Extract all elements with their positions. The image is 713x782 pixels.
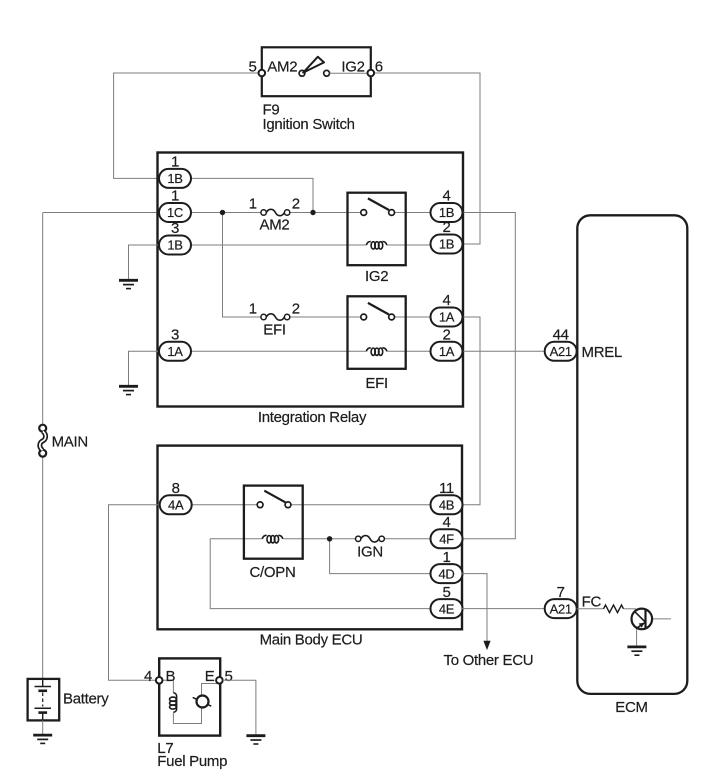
svg-text:ECM: ECM: [615, 699, 647, 716]
arrowhead to other ECU: [483, 641, 490, 650]
svg-text:1A: 1A: [439, 310, 455, 325]
svg-text:AM2: AM2: [267, 58, 297, 75]
svg-text:IGN: IGN: [357, 544, 383, 561]
svg-text:3: 3: [171, 327, 179, 344]
svg-text:Main Body ECU: Main Body ECU: [260, 632, 363, 649]
svg-text:A21: A21: [550, 601, 572, 616]
connector pin 1B(4): [431, 188, 463, 222]
wire battery vertical lower (MAIN link to battery): [42, 456, 44, 678]
svg-text:EFI: EFI: [263, 322, 285, 339]
svg-text:4E: 4E: [439, 601, 455, 616]
ignition switch blade lever: [303, 57, 324, 73]
ignition switch F9 box: [262, 47, 371, 96]
wire from ignition pin 5 to integration relay pin 1B(1): [114, 73, 259, 178]
svg-text:Integration Relay: Integration Relay: [258, 409, 367, 426]
svg-text:1B: 1B: [167, 171, 182, 186]
fuel pump coil: [170, 693, 177, 713]
wire 1A(2) to ECM A21 MREL: [462, 350, 545, 352]
svg-text:1: 1: [171, 154, 179, 171]
fuse IGN: [356, 536, 385, 542]
wire junction IGN down to 4D: [330, 539, 431, 574]
svg-text:4: 4: [144, 668, 152, 685]
wire battery feed to 1C: [43, 212, 160, 214]
svg-text:1: 1: [171, 188, 179, 205]
connector pin A21 (FC): [545, 584, 577, 618]
main body ECU box: [158, 446, 463, 630]
relay EFI box: [348, 296, 406, 369]
wire battery vertical upper (to MAIN link): [42, 213, 44, 426]
wire fuse AM2 to relay IG2 contact: [290, 212, 361, 214]
svg-text:5: 5: [442, 584, 450, 601]
relay IG2 contact: [361, 198, 395, 215]
svg-text:3: 3: [171, 220, 179, 237]
fuel pump internal wire pin B to coil: [162, 680, 173, 692]
svg-text:1A: 1A: [167, 344, 183, 359]
wire battery to ground: [42, 720, 44, 734]
connector pin 1C(1): [159, 188, 191, 222]
svg-text:MAIN: MAIN: [52, 434, 88, 451]
svg-text:1B: 1B: [439, 237, 454, 252]
svg-text:4D: 4D: [438, 566, 454, 581]
svg-text:AM2: AM2: [260, 217, 290, 234]
wire ignition contact IG2 to pin 6: [330, 72, 368, 74]
fuse AM2: [261, 209, 290, 215]
wire transistor emitter down to ground: [636, 629, 638, 646]
battery: [28, 679, 60, 721]
connector pin 1A(3): [159, 327, 191, 361]
svg-text:5: 5: [248, 58, 256, 75]
svg-text:5: 5: [225, 668, 233, 685]
relay IG2 coil: [366, 242, 386, 250]
svg-text:2: 2: [292, 196, 300, 213]
svg-text:4: 4: [442, 188, 450, 205]
junction node after fuse AM2: [310, 210, 315, 215]
fuel pump box L7: [159, 658, 220, 735]
wire transistor collector right: [646, 618, 653, 620]
ground below 1A(3): [119, 386, 138, 394]
svg-text:6: 6: [375, 58, 383, 75]
svg-text:IG2: IG2: [341, 58, 364, 75]
wire 1A(3) to ground: [129, 351, 161, 385]
fusible link MAIN: [39, 425, 46, 457]
ground below transistor: [627, 647, 646, 655]
connector pin 4F: [431, 514, 463, 548]
svg-text:4: 4: [442, 514, 450, 531]
connector pin 1A(2): [431, 327, 463, 361]
svg-text:1: 1: [442, 549, 450, 566]
wire 4D to other ECU with arrow: [462, 574, 487, 642]
svg-text:4: 4: [442, 292, 450, 309]
svg-text:Battery: Battery: [63, 691, 109, 708]
fuel pump internal wire motor top to pin E: [202, 684, 220, 696]
wire 4A out left down to fuel pump pin B: [109, 505, 160, 681]
wire 1B(3) to ground: [129, 245, 161, 280]
ground below fuel pump E: [246, 736, 265, 744]
wire 1A(3) coil row through EFI coil to 1A(2): [191, 350, 431, 352]
svg-text:A21: A21: [550, 344, 572, 359]
connector pin 1A(4): [431, 292, 463, 326]
connector pin 4E: [431, 584, 463, 618]
ignition switch pin 6: [368, 70, 375, 77]
svg-text:2: 2: [292, 300, 300, 317]
svg-text:2: 2: [442, 219, 450, 236]
relay C/OPN box: [244, 486, 303, 559]
ignition switch contact AM2 circle: [299, 70, 305, 76]
wire fuse EFI to relay EFI contact: [290, 316, 361, 318]
svg-text:4F: 4F: [439, 532, 454, 547]
svg-text:FC: FC: [582, 594, 602, 611]
fuel pump internal wire coil to motor bottom: [173, 708, 201, 724]
svg-text:Fuel Pump: Fuel Pump: [157, 753, 227, 770]
transistor Q (ECM output): [632, 609, 653, 630]
wire 1B(4) out right down to 4F: [462, 213, 515, 539]
svg-text:B: B: [166, 668, 176, 685]
relay EFI coil: [366, 348, 386, 356]
svg-text:MREL: MREL: [582, 344, 622, 361]
ground below battery: [33, 735, 52, 743]
wire FC to resistor: [577, 608, 604, 610]
svg-text:44: 44: [553, 327, 569, 344]
svg-text:1B: 1B: [167, 238, 182, 253]
svg-text:C/OPN: C/OPN: [249, 564, 295, 581]
svg-text:EFI: EFI: [365, 375, 387, 392]
wire junction 1C down to fuse EFI: [223, 213, 262, 318]
wire relay EFI contact to 1A(4): [395, 316, 431, 318]
svg-text:2: 2: [442, 327, 450, 344]
ignition switch contact IG2 circle: [324, 70, 330, 76]
wire pump pin E to ground: [223, 680, 256, 734]
ignition switch pin 5: [259, 70, 266, 77]
wire 4E to ECM A21 FC: [462, 608, 545, 610]
ECM box: [577, 215, 687, 694]
wire 1C to fuse AM2: [191, 212, 261, 214]
wire 1B(3) coil row through IG2 coil to 1B(2): [191, 244, 431, 246]
resistor (FC line): [604, 605, 624, 613]
junction node at IGN fuse left: [327, 536, 332, 541]
motor M (fuel pump): [197, 696, 209, 708]
wire 4A to C/OPN contact: [192, 504, 258, 506]
svg-text:8: 8: [172, 480, 180, 497]
relay C/OPN contact: [257, 491, 291, 508]
svg-text:1B: 1B: [439, 205, 454, 220]
connector pin 4B: [431, 480, 463, 514]
svg-text:1C: 1C: [167, 205, 183, 220]
connector pin 1B(2): [431, 219, 463, 253]
wire C/OPN coil row to IGN fuse and 4F: [210, 538, 430, 540]
svg-text:1A: 1A: [439, 344, 455, 359]
wire C/OPN contact to 4B: [291, 504, 431, 506]
relay C/OPN coil: [262, 535, 282, 543]
wire from ignition pin 6 to integration relay pin 1B(2): [374, 73, 480, 244]
connector pin 1B(3): [159, 220, 191, 254]
svg-text:1: 1: [249, 196, 257, 213]
svg-text:To Other ECU: To Other ECU: [444, 652, 534, 669]
svg-text:IG2: IG2: [365, 268, 388, 285]
wire 1A(4) out right down to 4B: [462, 317, 480, 505]
junction node at 1C row left: [220, 210, 225, 215]
ground below 1B(3): [119, 280, 138, 288]
svg-text:11: 11: [439, 480, 454, 497]
fuel pump pin E: [216, 677, 223, 684]
wire C/OPN coil left leg down to 4E: [210, 539, 430, 609]
svg-text:Ignition Switch: Ignition Switch: [263, 116, 355, 133]
svg-text:4A: 4A: [168, 498, 184, 513]
fuse EFI: [261, 314, 290, 320]
connector pin 4A: [160, 480, 192, 514]
connector pin 4D: [431, 549, 463, 583]
connector pin 1B(1): [159, 154, 191, 188]
svg-text:E: E: [205, 668, 215, 685]
wire resistor to transistor: [624, 608, 637, 610]
svg-text:7: 7: [557, 584, 565, 601]
svg-text:1: 1: [249, 300, 257, 317]
integration relay box: [158, 153, 464, 407]
motor M diagonal: [193, 697, 212, 706]
svg-text:4B: 4B: [439, 498, 454, 513]
wire 1B(1) to junction above AM2 dot: [191, 178, 313, 212]
relay IG2 box: [348, 193, 406, 266]
connector pin A21 (MREL): [545, 327, 577, 361]
wire relay IG2 contact to 1B(4): [395, 212, 431, 214]
relay EFI contact: [361, 303, 395, 320]
fuel pump pin B: [156, 677, 163, 684]
